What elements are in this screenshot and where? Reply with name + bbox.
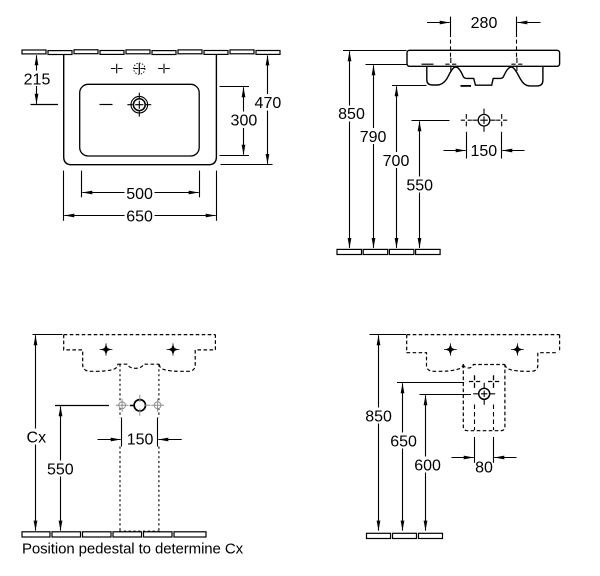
dashed basin outline (front) [64,335,216,372]
drain hole circle (trap view) [473,383,495,405]
svg-text:470: 470 [255,95,282,112]
under profile (front) [427,66,543,86]
svg-text:700: 700 [383,153,410,170]
svg-text:600: 600 [414,458,441,475]
fixing crosshair right (front) [511,58,522,71]
drain pipe dashed lines [475,405,494,431]
fixing star left (trap view) [444,343,457,355]
floor tiles (front) [337,249,440,254]
svg-text:280: 280 [471,15,498,32]
centreline dash left of hole [100,104,113,106]
side crosshair right (front) [496,114,507,126]
slab centreline dash [422,63,434,65]
crosshair left (trap view) [469,375,480,388]
svg-text:500: 500 [126,186,153,203]
dimension 850 (trap view) [363,335,393,530]
crosshair right (trap view) [488,375,499,388]
Cx top extension line [33,334,63,336]
dimension 650 (trap view) [388,383,465,531]
dimension 280 [427,15,541,33]
centreline extension to holes [55,405,134,407]
svg-text:850: 850 [338,106,365,123]
svg-text:300: 300 [231,112,258,129]
dimension 550 (pedestal) [46,406,76,530]
fixing star left (front+pedestal) [100,343,113,355]
tap hole mark left [111,64,123,73]
dimension 300 [220,87,259,156]
dimension 80 [452,437,517,477]
fitting hole group (front+pedestal) : centre circle [134,395,150,416]
basin slab (front) [407,50,560,66]
basin outer outline (plan) [64,55,217,165]
svg-text:550: 550 [47,461,74,478]
drain underline dash [461,85,472,87]
svg-text:550: 550 [406,178,433,195]
svg-text:150: 150 [470,143,497,160]
tap hole mark centre (with dotted circle) [134,63,146,74]
tap hole mark right [158,64,170,73]
basin inner bowl (plan) [80,84,200,156]
svg-text:650: 650 [126,208,153,225]
dimension 600 (trap view) [411,395,471,531]
dimension 150 (front) [444,132,525,160]
dimension 550 (front) [405,121,450,248]
fixing star right (trap view) [511,343,524,355]
svg-text:Position pedestal to determine: Position pedestal to determine Cx [22,541,244,558]
main fitting hole (plan) [127,93,151,117]
side hole left (grey) [116,399,129,412]
dimension Cx [25,335,47,530]
svg-text:850: 850 [365,408,392,425]
side crosshair left (front) [461,114,472,126]
fixing crosshair left (front) [445,58,456,71]
svg-text:80: 80 [475,460,493,477]
dashed basin outline (trap view) [407,335,560,372]
dimension 700 (front) [381,86,427,248]
svg-text:150: 150 [127,432,154,449]
floor tiles (pedestal view) [22,532,206,537]
fixing star right (front+pedestal) [167,343,180,355]
dimension 790 (front) [358,65,407,248]
floor tiles (trap view) [367,533,443,538]
pedestal outline (dashed) [119,365,160,532]
trap box (dashed) [463,365,505,431]
side hole right (grey) [151,399,164,412]
dimension 850 (front) [337,51,407,248]
850 top extension line [370,334,407,336]
svg-text:215: 215 [24,72,51,89]
dimension 470 [221,55,283,164]
svg-text:Cx: Cx [27,429,47,446]
dimension 650 [64,171,217,226]
svg-text:790: 790 [360,129,387,146]
wall section band (plan) [22,50,280,55]
fitting hole group (front) : centre circle [472,109,495,132]
dimension 500 [82,171,200,203]
dimension 215 [23,55,58,104]
fixing hole centrelines (dashed drops) [451,33,517,59]
svg-text:650: 650 [390,434,417,451]
dimension 150 (pedestal) [98,418,182,449]
